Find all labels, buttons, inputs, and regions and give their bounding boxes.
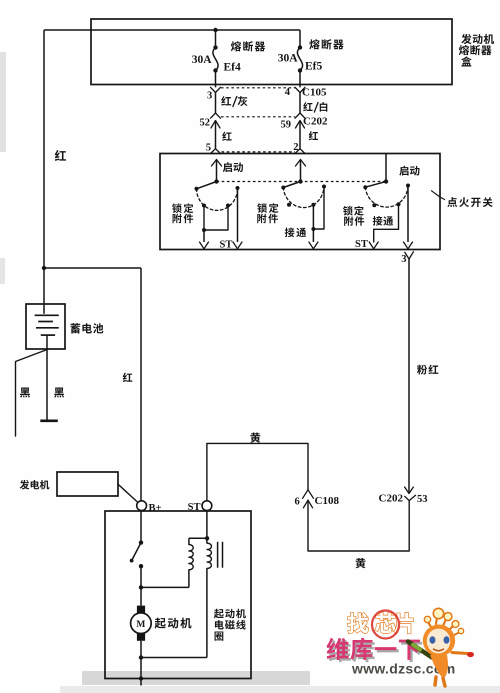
svg-text:59: 59	[281, 120, 292, 131]
svg-text:4: 4	[285, 87, 291, 98]
svg-text:ST: ST	[188, 502, 201, 513]
svg-text:Ef4: Ef4	[224, 62, 242, 74]
svg-text:C108: C108	[315, 495, 340, 507]
svg-text:M: M	[136, 620, 145, 630]
svg-text:C105: C105	[302, 87, 327, 99]
svg-text:ST: ST	[220, 239, 233, 250]
svg-text:2: 2	[293, 142, 298, 153]
svg-text:ST: ST	[355, 239, 368, 250]
svg-text:5: 5	[206, 143, 211, 154]
svg-text:30A: 30A	[278, 53, 299, 65]
svg-text:B+: B+	[149, 503, 162, 514]
svg-text:53: 53	[417, 494, 428, 505]
svg-text:52: 52	[200, 118, 211, 129]
svg-text:3: 3	[401, 254, 406, 265]
svg-text:Ef5: Ef5	[305, 61, 323, 73]
svg-text:6: 6	[295, 497, 300, 508]
svg-text:3: 3	[207, 91, 212, 102]
svg-text:C202: C202	[379, 493, 404, 505]
svg-text:30A: 30A	[192, 54, 213, 66]
svg-text:C202: C202	[303, 116, 328, 128]
